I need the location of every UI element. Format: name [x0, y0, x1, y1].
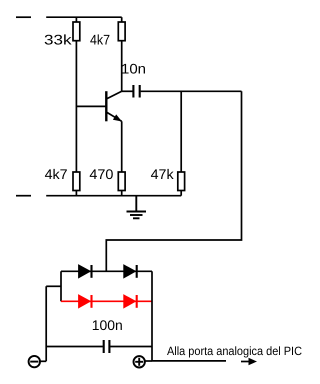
wire 47k bottom stub: [180, 191, 182, 196]
wire base: [76, 105, 105, 107]
wire R1 top stub: [75, 17, 77, 22]
diode D4 red: [124, 295, 137, 308]
svg-text:470: 470: [89, 166, 113, 182]
wire output line: [152, 360, 226, 362]
wire bottom-left dash: [16, 195, 31, 197]
wire cap right: [110, 346, 152, 348]
wire left box edge: [60, 271, 62, 301]
wire minus stub: [40, 360, 46, 362]
capacitor 100n left plate: [103, 340, 105, 353]
terminal plus: [134, 356, 153, 367]
diode D3 red: [79, 295, 92, 308]
capacitor 10n right plate: [139, 85, 141, 98]
wire left stub to box: [46, 285, 61, 287]
resistor 47k body: [178, 172, 185, 191]
svg-text:100n: 100n: [92, 317, 123, 333]
wire right box edge down: [151, 271, 153, 361]
resistor 4k7 lower body: [73, 172, 80, 191]
wire top-left dash: [16, 16, 31, 18]
transistor base bar: [105, 91, 107, 121]
wire R2 drop from rail: [121, 17, 123, 22]
wire plus stub: [145, 360, 152, 362]
resistor 4k7 upper body: [118, 22, 125, 41]
wire left column: [75, 41, 77, 172]
transistor Q1: [106, 91, 122, 121]
wire top rail: [46, 16, 122, 18]
ground: [127, 196, 147, 219]
svg-text:10n: 10n: [121, 61, 146, 77]
wire feed right down-left-down: [106, 91, 241, 271]
transistor emitter diagonal: [106, 112, 121, 121]
resistor 470 body: [118, 172, 125, 191]
wire cap to right: [141, 90, 242, 92]
capacitor 10n left plate: [132, 85, 134, 98]
wire R4 bottom stub: [121, 191, 123, 196]
wire cap left: [46, 346, 103, 348]
wire bottom rail: [46, 195, 181, 197]
wire R3 bottom stub: [75, 191, 77, 196]
terminal minus: [29, 356, 47, 367]
svg-text:47k: 47k: [151, 166, 175, 182]
wire black diode row: [61, 270, 152, 272]
wire emitter to R4: [121, 121, 123, 172]
transistor emitter arrowhead: [113, 114, 122, 121]
wire arrow segment: [241, 361, 250, 363]
capacitor 100n: [46, 340, 152, 353]
wire left outer vertical: [45, 286, 47, 361]
diode D2: [124, 265, 137, 278]
wire red diode row: [61, 300, 152, 302]
wire collector to cap: [122, 90, 133, 92]
diode network: [46, 265, 152, 361]
svg-text:Alla porta analogica del PIC: Alla porta analogica del PIC: [167, 344, 302, 358]
wire 47k branch: [180, 91, 182, 172]
capacitor 100n right plate: [108, 340, 110, 353]
svg-text:33k: 33k: [44, 31, 73, 47]
wire R2 to collector: [121, 41, 123, 92]
resistor 33k body: [73, 22, 80, 41]
arrowhead output: [249, 358, 258, 365]
transistor collector diagonal: [106, 91, 121, 99]
svg-text:4k7: 4k7: [45, 166, 68, 182]
svg-text:4k7: 4k7: [90, 31, 110, 47]
diode D1: [79, 265, 92, 278]
